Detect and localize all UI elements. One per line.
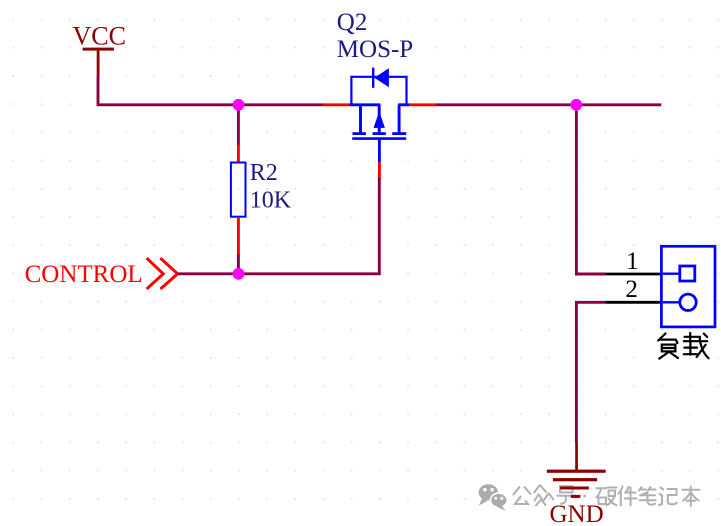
- svg-text:2: 2: [625, 276, 638, 303]
- wire Q2 drain to rail end: [436, 103, 661, 106]
- transistor Q2: [323, 68, 436, 178]
- svg-text:R2: R2: [250, 160, 278, 186]
- power symbol VCC: [83, 48, 114, 76]
- wire junction C to connector pin 1: [576, 105, 605, 274]
- svg-text:1: 1: [626, 248, 639, 275]
- wire R2 to junction B: [237, 254, 240, 273]
- wire connector pin 2 to GND: [576, 302, 605, 443]
- junction dot C: [570, 99, 582, 111]
- pin 1: [605, 273, 660, 276]
- svg-text:CONTROL: CONTROL: [25, 261, 143, 288]
- wire VCC to rail: [98, 76, 323, 105]
- pin 2: [605, 301, 660, 304]
- wire junction A to R2: [237, 105, 240, 145]
- svg-text:10K: 10K: [250, 187, 292, 213]
- port chevron: [148, 259, 178, 288]
- power symbol GND: [547, 443, 606, 498]
- junction dot B: [233, 268, 245, 280]
- watermark: [479, 484, 700, 511]
- svg-text:GND: GND: [550, 501, 604, 526]
- connector J1: [661, 246, 715, 327]
- wire CONTROL to Q2 gate: [178, 178, 379, 274]
- junction dot A: [233, 99, 245, 111]
- svg-text:MOS-P: MOS-P: [337, 36, 413, 63]
- resistor R2: [231, 145, 246, 255]
- svg-text:Q2: Q2: [337, 9, 368, 36]
- label 负载: [658, 333, 708, 359]
- svg-text:VCC: VCC: [73, 22, 126, 51]
